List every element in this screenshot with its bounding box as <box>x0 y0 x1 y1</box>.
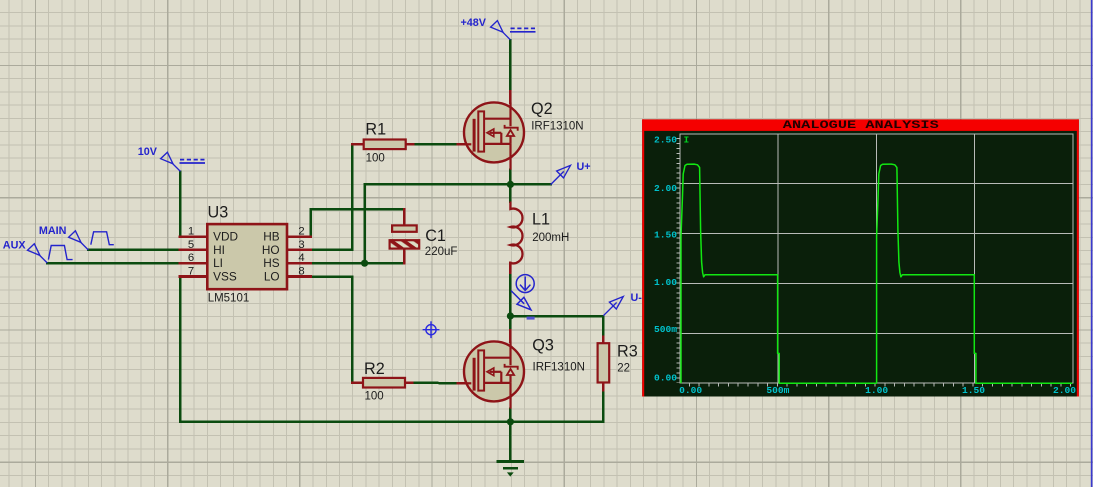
svg-text:100: 100 <box>365 391 384 403</box>
svg-text:VDD: VDD <box>213 230 238 244</box>
svg-text:2: 2 <box>298 226 304 238</box>
svg-text:1.50: 1.50 <box>654 230 677 241</box>
svg-text:7: 7 <box>188 266 194 278</box>
svg-text:4: 4 <box>298 252 304 264</box>
svg-text:0.00: 0.00 <box>679 385 702 396</box>
svg-text:HI: HI <box>213 243 225 257</box>
svg-text:2.00: 2.00 <box>1053 385 1076 396</box>
svg-text:IRF1310N: IRF1310N <box>531 121 583 133</box>
svg-text:1: 1 <box>188 226 194 238</box>
svg-text:C1: C1 <box>425 227 446 245</box>
svg-text:L1: L1 <box>532 210 550 228</box>
svg-text:HB: HB <box>263 230 280 244</box>
svg-text:Q3: Q3 <box>532 336 554 354</box>
svg-text:U+: U+ <box>577 161 591 173</box>
svg-text:IRF1310N: IRF1310N <box>533 361 585 373</box>
svg-text:R3: R3 <box>617 342 638 360</box>
svg-text:2.50: 2.50 <box>654 135 677 146</box>
svg-text:+48V: +48V <box>460 17 486 29</box>
svg-text:I: I <box>684 135 690 146</box>
svg-text:200mH: 200mH <box>532 232 569 244</box>
svg-text:3: 3 <box>298 239 304 251</box>
svg-text:100: 100 <box>366 153 385 165</box>
svg-text:1.00: 1.00 <box>654 277 677 288</box>
svg-text:U3: U3 <box>208 204 229 222</box>
svg-text:500m: 500m <box>766 385 789 396</box>
svg-text:6: 6 <box>188 252 194 264</box>
svg-text:ANALOGUE ANALYSIS: ANALOGUE ANALYSIS <box>783 120 940 132</box>
svg-text:R2: R2 <box>364 360 385 378</box>
svg-text:LI: LI <box>213 256 223 270</box>
svg-text:VSS: VSS <box>213 269 237 283</box>
svg-text:U-: U- <box>631 292 643 304</box>
svg-text:2.00: 2.00 <box>654 183 677 194</box>
svg-text:10V: 10V <box>138 146 158 158</box>
svg-text:AUX: AUX <box>3 240 27 252</box>
svg-text:LO: LO <box>264 269 280 283</box>
svg-text:Q2: Q2 <box>531 100 553 118</box>
svg-text:0.00: 0.00 <box>654 373 677 384</box>
svg-text:HS: HS <box>263 256 280 270</box>
svg-text:HO: HO <box>262 243 280 257</box>
svg-text:22: 22 <box>617 363 630 375</box>
svg-text:220uF: 220uF <box>425 246 458 258</box>
svg-text:500m: 500m <box>654 324 677 335</box>
svg-text:LM5101: LM5101 <box>208 293 250 305</box>
svg-text:MAIN: MAIN <box>39 225 67 237</box>
svg-text:8: 8 <box>298 266 304 278</box>
svg-text:1.00: 1.00 <box>865 385 888 396</box>
svg-text:R1: R1 <box>365 120 386 138</box>
svg-text:1.50: 1.50 <box>962 385 985 396</box>
svg-text:5: 5 <box>188 239 194 251</box>
